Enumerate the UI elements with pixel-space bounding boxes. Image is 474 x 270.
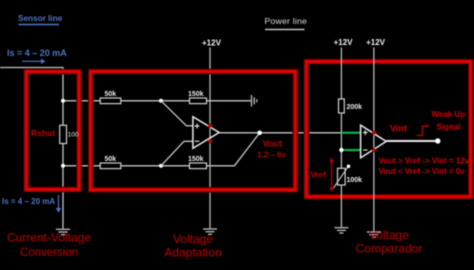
ground (below comparator power line) bbox=[367, 232, 381, 237]
ground (below pot) bbox=[334, 228, 348, 233]
resistor 200k bbox=[339, 99, 363, 113]
ground (below middle power line) bbox=[203, 229, 217, 234]
potentiometer 100k bbox=[333, 165, 362, 189]
label Is = 4-20 mA (top) bbox=[7, 48, 67, 64]
label Power line bbox=[265, 16, 308, 30]
node Vref junction bbox=[339, 148, 343, 152]
svg-text:Adaptation: Adaptation bbox=[164, 246, 221, 260]
wire sensor input bbox=[0, 68, 63, 101]
wire green Vref to - input bbox=[341, 149, 360, 151]
resistor Rshut bbox=[31, 125, 67, 143]
node junction (Rshut top) bbox=[61, 99, 65, 103]
svg-text:Vout: Vout bbox=[263, 139, 282, 149]
resistor 150k (bottom, feedback) bbox=[188, 156, 207, 169]
node Vint end bbox=[435, 138, 440, 143]
wire top row: node to 50k bbox=[63, 100, 100, 102]
label Sensor line bbox=[18, 14, 63, 25]
label Vref with range arrow bbox=[311, 158, 334, 193]
svg-text:Voltage: Voltage bbox=[173, 232, 213, 246]
svg-text:Sensor line: Sensor line bbox=[18, 14, 63, 23]
svg-text:100k: 100k bbox=[347, 177, 363, 184]
power pin marker U2 top bbox=[372, 130, 377, 135]
svg-text:Weak Up: Weak Up bbox=[432, 110, 466, 119]
svg-text:Signal: Signal bbox=[437, 123, 461, 132]
node junction (Rshut bottom) bbox=[61, 164, 65, 168]
resistor 50k (bottom) bbox=[100, 156, 121, 169]
svg-text:Vout > Vref -> Vint = 12v: Vout > Vref -> Vint = 12v bbox=[379, 157, 470, 166]
svg-text:Vout < Vref -> Vint = 0v: Vout < Vref -> Vint = 0v bbox=[379, 167, 466, 176]
label Is = 4-20 mA (bottom) bbox=[2, 195, 61, 213]
wire green Vout to + input bbox=[341, 132, 360, 134]
wire 150k to ground bbox=[207, 100, 251, 102]
node Vout junction bbox=[257, 131, 262, 136]
wire node A to op-amp + input bbox=[161, 101, 193, 126]
svg-text:200k: 200k bbox=[347, 104, 363, 111]
svg-text:+12V: +12V bbox=[202, 39, 222, 48]
wire 50k to node B bbox=[121, 165, 190, 167]
wire feedback to output node bbox=[207, 133, 260, 166]
power +12V (middle) bbox=[202, 39, 222, 229]
power pin marker U1 bottom bbox=[208, 139, 213, 144]
wire Rshut to ground bbox=[62, 144, 64, 229]
svg-text:Is = 4 – 20 mA: Is = 4 – 20 mA bbox=[7, 48, 67, 58]
red box Current-Voltage Conversion bbox=[26, 72, 79, 190]
svg-text:50k: 50k bbox=[105, 91, 117, 98]
power pin marker U2 bottom bbox=[372, 148, 377, 153]
op-amp U2 comparator bbox=[361, 125, 387, 158]
resistor 50k (top) bbox=[100, 91, 121, 104]
svg-text:150k: 150k bbox=[188, 156, 204, 163]
svg-text:100: 100 bbox=[68, 131, 79, 138]
svg-text:150k: 150k bbox=[188, 91, 204, 98]
op-amp U1 bbox=[193, 117, 219, 149]
svg-text:Power line: Power line bbox=[265, 16, 308, 26]
power pin marker U1 top bbox=[208, 123, 213, 128]
svg-text:Vint: Vint bbox=[390, 124, 407, 134]
svg-text:Current-Voltage: Current-Voltage bbox=[7, 231, 91, 245]
svg-text:50k: 50k bbox=[105, 156, 117, 163]
svg-text:Voltage: Voltage bbox=[369, 228, 409, 242]
wire Rshut branch vertical bbox=[62, 101, 64, 126]
label Vout bbox=[257, 139, 286, 160]
svg-text:Vref: Vref bbox=[311, 171, 326, 180]
node A junction (top) bbox=[159, 99, 163, 103]
label Voltage Adaptation bbox=[164, 232, 221, 260]
svg-text:1.2 – 6v: 1.2 – 6v bbox=[257, 151, 286, 160]
wire U2 output Vint bbox=[386, 140, 438, 142]
svg-text:+12V: +12V bbox=[366, 38, 386, 47]
wire bottom row: node to 50k bbox=[63, 165, 100, 167]
svg-text:Conversion: Conversion bbox=[20, 247, 78, 259]
step symbol wake up bbox=[417, 126, 428, 136]
svg-text:Rshut: Rshut bbox=[31, 128, 55, 138]
wire node B to op-amp - input bbox=[161, 141, 193, 166]
red box Voltage Adaptation bbox=[91, 72, 296, 190]
label Voltage Comparador bbox=[356, 228, 423, 256]
power +12V (comparator left) bbox=[334, 38, 354, 99]
ground (top row, right-facing) bbox=[252, 95, 257, 107]
svg-text:+12V: +12V bbox=[334, 38, 354, 47]
wire U1 output to comparator bbox=[219, 132, 341, 134]
svg-text:Is = 4 – 20 mA: Is = 4 – 20 mA bbox=[2, 197, 55, 206]
power +12V (comparator right) bbox=[366, 38, 386, 231]
wire 50k to node A bbox=[121, 100, 190, 102]
resistor 150k (top) bbox=[188, 91, 207, 104]
svg-text:Comparador: Comparador bbox=[356, 242, 423, 256]
label Weak Up Signal bbox=[432, 110, 466, 132]
label comparator equations bbox=[379, 157, 470, 177]
node B junction (bottom) bbox=[159, 164, 163, 168]
ground (left, below Rshut) bbox=[56, 229, 70, 234]
wire pot to ground bbox=[340, 185, 342, 227]
wire 200k to Vref node bbox=[340, 113, 342, 168]
label Current-Voltage Conversion bbox=[7, 231, 91, 259]
red box Voltage Comparador bbox=[306, 62, 470, 197]
